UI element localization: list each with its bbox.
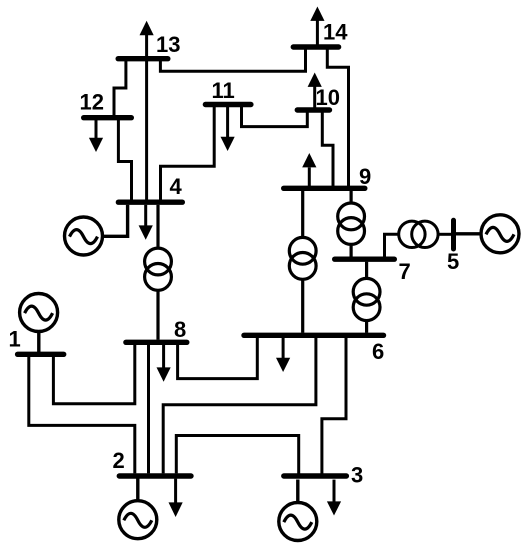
wire bus8-bus6 — [178, 338, 258, 379]
load arrow bus 2 — [169, 479, 183, 517]
bus 4 — [118, 199, 182, 204]
arrow up at bus 10 (injection) — [308, 73, 322, 108]
svg-text:14: 14 — [323, 20, 348, 45]
transformer T9-6 — [289, 191, 316, 333]
load arrow bus 12 — [89, 120, 103, 152]
bus 8 — [126, 340, 187, 345]
generator G4 at bus 4 — [65, 205, 128, 255]
svg-text:1: 1 — [9, 327, 21, 352]
load arrow bus 6 — [276, 338, 290, 372]
transformer T9-7 — [338, 191, 365, 257]
bus 10 — [297, 107, 329, 112]
svg-text:13: 13 — [156, 32, 180, 57]
bus 9 — [284, 186, 365, 191]
wire bus2-bus3 — [176, 436, 298, 475]
load arrow bus 4 — [139, 205, 153, 240]
svg-text:5: 5 — [447, 249, 459, 274]
wire bus13-bus14 — [160, 49, 305, 71]
load arrow bus 11 — [221, 107, 235, 151]
load arrow bus 3 — [327, 480, 341, 516]
wire bus1-bus2 — [29, 357, 135, 474]
wire bus13-bus12 — [114, 61, 126, 116]
arrow up at bus 13 (injection) — [140, 21, 154, 57]
generator G5 at bus 5 — [456, 215, 519, 253]
bus 3 — [284, 473, 347, 478]
transformer T4-8 — [145, 205, 172, 340]
bus 5 (vertical bar) — [451, 220, 456, 249]
bus 1 — [18, 352, 64, 357]
bus 13 — [118, 56, 168, 61]
bus 7 — [335, 257, 395, 262]
svg-text:9: 9 — [359, 164, 371, 189]
svg-text:7: 7 — [399, 259, 411, 284]
transformer T7-5 (horizontal) — [385, 221, 452, 257]
wire bus1-bus8 — [53, 345, 134, 404]
wire bus6-bus3 — [322, 338, 346, 475]
wire bus12-bus4 — [118, 120, 131, 200]
svg-text:6: 6 — [372, 339, 384, 364]
svg-text:8: 8 — [174, 317, 186, 342]
wire bus11-bus4 — [161, 107, 215, 200]
svg-text:11: 11 — [212, 78, 235, 103]
wire bus2-bus6 — [163, 338, 316, 474]
arrow up at bus 9 (injection) — [302, 153, 316, 186]
wire bus8-bus2 — [147, 345, 150, 474]
load arrow bus 8 — [157, 345, 171, 382]
bus 14 — [293, 44, 338, 49]
wire bus11-bus10 — [242, 107, 308, 127]
generator G1 at bus 1 — [20, 294, 58, 353]
transformer T7-6 — [353, 262, 380, 333]
bus 6 — [244, 333, 384, 338]
svg-text:12: 12 — [80, 90, 104, 115]
wire bus10-bus9 — [322, 112, 333, 186]
generator G2 at bus 2 — [119, 479, 157, 539]
svg-text:4: 4 — [170, 174, 183, 199]
generator G3 at bus 3 — [279, 480, 317, 541]
svg-text:3: 3 — [351, 463, 363, 488]
svg-text:2: 2 — [113, 448, 125, 473]
svg-text:10: 10 — [316, 85, 340, 110]
bus 2 — [119, 473, 191, 478]
arrow up at bus 14 (injection) — [310, 7, 324, 45]
bus 12 — [84, 115, 132, 120]
bus 11 — [205, 102, 251, 107]
wire bus13-bus4 — [145, 61, 148, 200]
wire bus14-bus9 — [327, 49, 348, 186]
